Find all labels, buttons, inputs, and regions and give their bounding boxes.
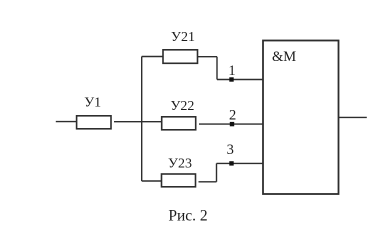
wire U23 output vertical rise [216, 163, 218, 181]
svg-text:2: 2 [229, 108, 236, 124]
junction pin 2 [230, 122, 234, 126]
wire to gate input 1 [217, 79, 263, 81]
svg-text:&М: &М [272, 49, 296, 65]
amplifier U21 (У21) box [163, 50, 198, 64]
wire U21 output vertical drop [216, 57, 218, 80]
wire U1 output to branch node and U22 input [114, 121, 162, 123]
junction pin 3 [229, 161, 233, 165]
wire U22 output to gate input 2 [199, 123, 263, 125]
wire branch to U21 input [142, 56, 163, 58]
svg-text:У22: У22 [170, 99, 194, 114]
svg-text:У1: У1 [84, 96, 101, 111]
amplifier U23 (У23) box [162, 174, 196, 187]
amplifier U22 (У22) box [162, 117, 196, 130]
wire branch vertical bus [141, 57, 143, 182]
wire U21 output horizontal [198, 56, 218, 58]
svg-text:У23: У23 [168, 157, 192, 172]
svg-text:1: 1 [228, 63, 235, 79]
junction pin 1 [229, 77, 233, 81]
wire branch to U23 input [142, 180, 162, 182]
logic gate &M box [263, 41, 339, 195]
wire to gate input 3 [217, 162, 264, 164]
svg-text:Рис. 2: Рис. 2 [168, 208, 207, 225]
wire input stub to U1 [56, 121, 77, 123]
svg-text:У21: У21 [171, 30, 195, 45]
amplifier U1 (У1) box [77, 116, 111, 129]
wire gate output [339, 116, 367, 118]
svg-text:3: 3 [227, 142, 234, 158]
wire U23 output horizontal [199, 181, 217, 183]
